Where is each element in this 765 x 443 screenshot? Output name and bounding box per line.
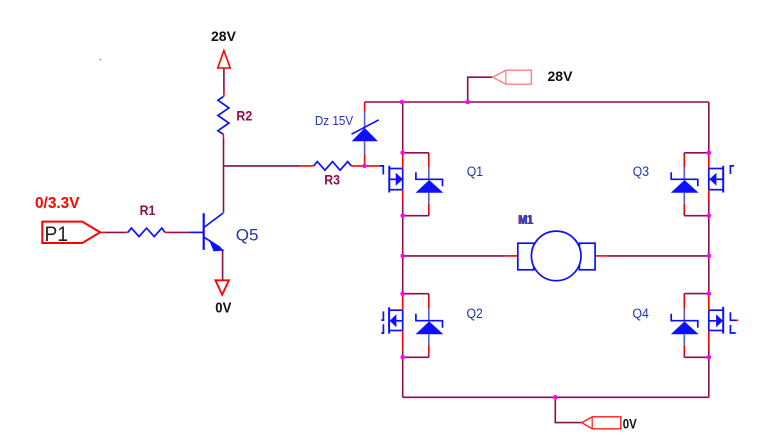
wire 28V to R2: [223, 69, 225, 92]
body diode D1: [403, 152, 429, 154]
mosfet Q3: [709, 166, 734, 193]
junction Q4 drain: [707, 291, 712, 296]
mosfet Q1: [380, 166, 403, 193]
junction Q1 source: [400, 213, 405, 218]
resistor R1: [128, 228, 165, 237]
svg-text:Q5: Q5: [236, 225, 259, 244]
mosfet Q4: [709, 307, 736, 334]
wire left rail: [402, 102, 404, 153]
junction gate node (R3/Dz/Q1 gate): [362, 164, 366, 168]
junction bottom rail / 0V stub: [553, 395, 558, 400]
junction top rail / Dz branch: [400, 100, 405, 105]
wire R2 to collector node: [222, 134, 224, 138]
svg-text:Q2: Q2: [467, 306, 483, 321]
port 28V: [493, 70, 532, 84]
junction left rail / motor row: [400, 254, 405, 259]
wire Q5 emitter to ground: [222, 250, 224, 279]
body diode D2: [403, 293, 429, 295]
junction Q1 drain: [400, 151, 405, 156]
junction Q4 source: [707, 355, 712, 360]
wire motor row left: [403, 255, 505, 257]
wire P1 to R1: [100, 231, 106, 233]
transistor Q5: [204, 213, 224, 250]
svg-text:Q3: Q3: [633, 164, 649, 179]
stray dot: [100, 59, 102, 61]
power arrow 28V: [218, 51, 231, 69]
wire R3 to gate node: [351, 165, 379, 167]
port P1: [42, 222, 100, 243]
wire right rail: [708, 102, 710, 153]
svg-text:0V: 0V: [215, 300, 231, 317]
ground 0V symbol: [215, 280, 229, 294]
resistor R3: [314, 162, 352, 171]
body diode D4: [684, 293, 709, 295]
wire R1 to Q5 base: [165, 231, 169, 233]
body diode D3: [684, 152, 709, 154]
junction right rail / motor row: [707, 254, 712, 259]
svg-text:Q4: Q4: [633, 306, 650, 321]
wire Dz top to rail: [365, 101, 402, 103]
junction top rail / 28V stub: [465, 100, 470, 105]
svg-text:0V: 0V: [623, 415, 638, 431]
mosfet Q2: [381, 307, 402, 333]
wire top rail: [402, 101, 709, 103]
svg-text:M1: M1: [519, 213, 534, 227]
junction Q3 drain: [707, 151, 712, 156]
junction Q2 drain: [400, 291, 405, 296]
svg-text:28V: 28V: [548, 68, 574, 84]
motor M1: [518, 243, 534, 270]
wire 28V stub: [468, 77, 493, 102]
wire collector node to R3: [224, 165, 301, 167]
svg-text:P1: P1: [45, 223, 69, 246]
svg-text:28V: 28V: [211, 28, 237, 44]
wire 0V stub: [555, 397, 582, 422]
svg-text:0/3.3V: 0/3.3V: [35, 195, 80, 212]
port 0V: [582, 417, 621, 429]
resistor R2: [218, 97, 229, 135]
wire bottom rail: [403, 396, 709, 398]
svg-text:R1: R1: [140, 202, 156, 218]
svg-text:R3: R3: [324, 171, 340, 187]
junction Q2 source: [400, 355, 405, 360]
svg-text:Q1: Q1: [467, 164, 483, 179]
wire motor row right: [595, 255, 608, 257]
svg-text:R2: R2: [236, 107, 252, 123]
junction Q3 source: [707, 213, 712, 218]
zener diode Dz: [364, 102, 366, 111]
svg-text:Dz 15V: Dz 15V: [315, 113, 353, 128]
